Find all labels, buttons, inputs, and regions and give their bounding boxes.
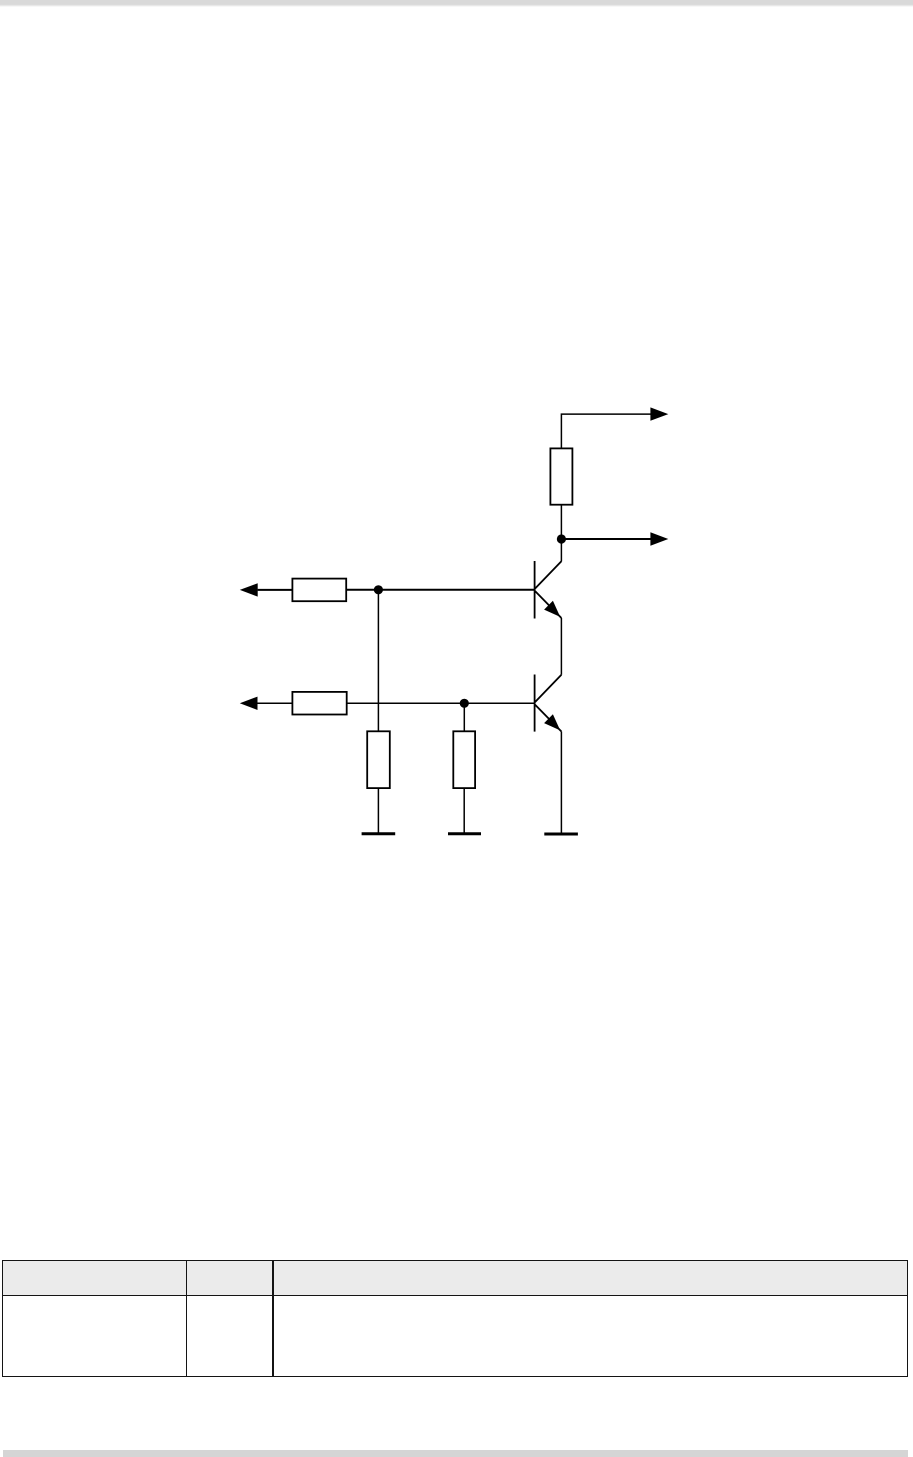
transistor Q2 [535, 675, 562, 732]
arrowhead Vcc [650, 407, 668, 420]
wire node base2 to R4 [463, 703, 465, 731]
resistor R3 [367, 731, 390, 788]
resistor R2 [292, 579, 346, 602]
resistor R4 [453, 731, 475, 788]
wire node to Q1 collector [560, 543, 562, 561]
wire Q2 base [347, 702, 535, 704]
page top rule [0, 0, 913, 7]
page bottom rule [3, 1450, 908, 1457]
arrowhead input1 [240, 583, 258, 596]
node base2 junction [460, 699, 469, 708]
wire node base1 to R3 [377, 590, 379, 732]
table [2, 1260, 908, 1377]
node base1 junction [374, 585, 383, 594]
wire R1 to node [560, 505, 562, 539]
ground Q2 emitter [544, 833, 578, 836]
ground R3 [362, 832, 396, 835]
wire Q2 emitter to ground [560, 732, 562, 834]
transistor Q1 [535, 561, 562, 619]
ground R4 [448, 832, 481, 835]
wire R4 to ground [463, 788, 465, 834]
table header row [3, 1261, 907, 1296]
arrowhead output [650, 532, 668, 545]
wire R3 to ground [377, 788, 379, 834]
resistor R1 [550, 448, 572, 504]
resistor R5 [292, 692, 346, 715]
wire Q1 base [346, 589, 534, 591]
wire R5 to input2 arrow [257, 702, 292, 704]
wire Q1 emitter to Q2 collector [560, 618, 562, 675]
node collector junction [557, 534, 566, 543]
wire output [561, 538, 651, 540]
table column divider 2 [272, 1261, 274, 1376]
table column divider 1 [186, 1261, 188, 1376]
wire Vcc top [561, 414, 651, 449]
wire R2 to input1 arrow [258, 589, 293, 591]
arrowhead input2 [240, 697, 258, 710]
